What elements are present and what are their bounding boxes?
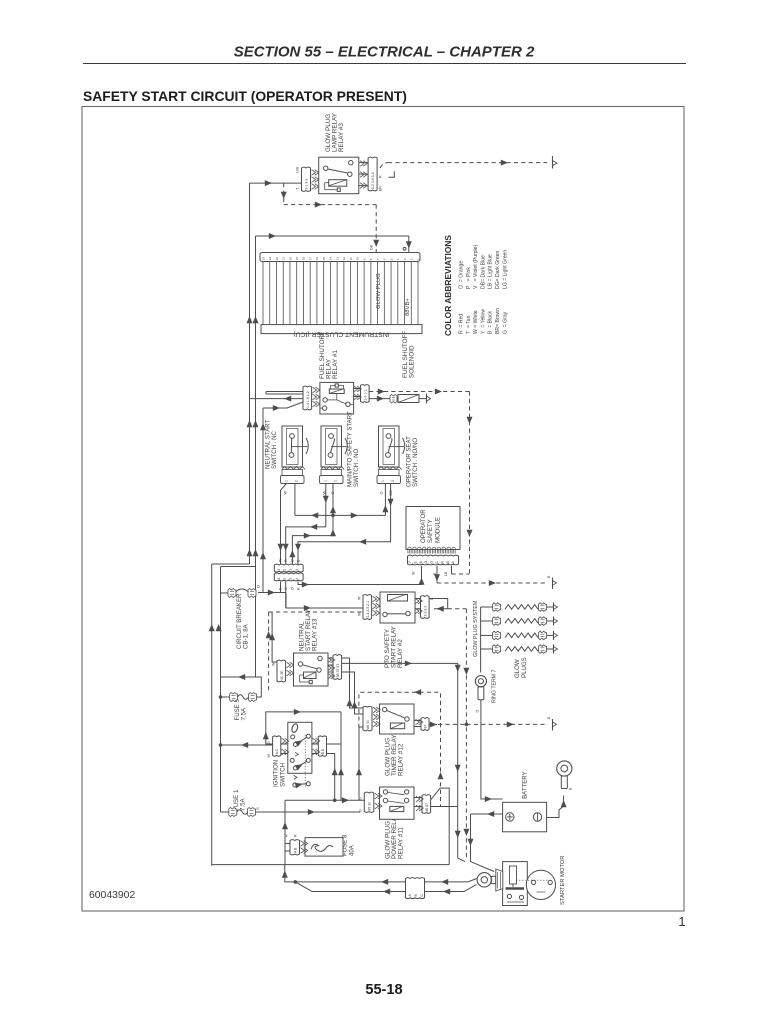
connector: ignition left plug <box>267 736 289 758</box>
svg-text:R: R <box>294 834 298 837</box>
wire: small dashed bracket below lamp relay output <box>389 171 395 177</box>
connector: module pin strip <box>408 547 459 576</box>
wire: dashed from fuel relay to right bus <box>369 389 469 395</box>
svg-text:RELAY #13: RELAY #13 <box>312 618 319 651</box>
svg-text:A C: A C <box>275 748 279 754</box>
svg-text:13: 13 <box>335 257 339 261</box>
svg-text:17: 17 <box>308 257 312 261</box>
svg-text:3: 3 <box>289 569 293 571</box>
wire: verticals from neutral relay down to timer relay <box>342 658 363 714</box>
connector: PTO relay left plug 2-4 2-5 2-1 <box>358 595 380 620</box>
wire: PTO relay right loopback <box>429 599 448 612</box>
wire: module feed bus3 <box>289 517 336 564</box>
relay: GLOW PLUG LAMP RELAY #3 <box>319 112 359 193</box>
connector: fuel relay left plug 1-4 1-6 1-2 <box>303 386 320 410</box>
wire: power relay output to starter <box>431 806 458 808</box>
svg-text:RING TERM 7: RING TERM 7 <box>492 670 498 703</box>
svg-text:1: 1 <box>678 914 685 929</box>
svg-text:W: W <box>267 754 271 758</box>
wire: dashed bus fuel relay to module <box>467 392 473 575</box>
fuse: FUSE 5 7.5A <box>219 674 262 721</box>
svg-text:MODULE: MODULE <box>434 517 441 543</box>
wire: module pin B to dashed ground <box>434 566 440 583</box>
svg-text:W: W <box>358 612 362 616</box>
svg-text:20: 20 <box>288 257 292 261</box>
wire: left vertical bus 2 <box>216 236 259 812</box>
connector: fuel relay right plug 1-3 1-1 <box>353 385 369 403</box>
connector: PTO relay right plug 2-3 2-2 <box>415 596 434 619</box>
starter: solenoid and motor <box>503 855 566 905</box>
component: INSTRUMENT CLUSTER (ICU) body <box>261 325 422 338</box>
wire: fuel relay to solenoid <box>369 396 390 402</box>
svg-text:14: 14 <box>329 257 333 261</box>
svg-text:G: G <box>359 809 363 812</box>
svg-text:O: O <box>476 710 480 713</box>
svg-text:L08: L08 <box>296 167 300 173</box>
svg-text:COLOR ABBREVIATIONS: COLOR ABBREVIATIONS <box>443 235 453 336</box>
wire: battery positive to starter <box>468 811 503 872</box>
svg-text:1: 1 <box>285 480 289 482</box>
svg-text:3C 3E: 3C 3E <box>280 670 284 680</box>
svg-text:Y = Yellow: Y = Yellow <box>480 309 486 334</box>
breaker: CIRCUIT BREAKER CB-1, 8A <box>221 585 261 649</box>
svg-text:SWITCH . NC: SWITCH . NC <box>271 430 278 469</box>
svg-text:3B 3T 6T: 3B 3T 6T <box>336 664 340 678</box>
svg-text:3-2 3-6 3-4: 3-2 3-6 3-4 <box>371 172 375 189</box>
svg-text:B = Black: B = Black <box>488 310 494 334</box>
svg-text:86 87: 86 87 <box>425 803 429 812</box>
wire: neutral relay to starter line <box>342 660 465 861</box>
connector: bottom 3-way inline <box>406 878 425 899</box>
svg-text:SWITCH: SWITCH <box>279 763 286 787</box>
dashed boundary: glow plug relay group <box>359 689 444 806</box>
svg-text:SWITCH . NO: SWITCH . NO <box>353 448 360 487</box>
svg-text:4: 4 <box>295 569 299 571</box>
wire: main power bus to power relay <box>282 797 364 864</box>
svg-text:15: 15 <box>322 257 326 261</box>
svg-text:22: 22 <box>275 257 279 261</box>
svg-text:16: 16 <box>315 257 319 261</box>
svg-text:GLOW PLUG: GLOW PLUG <box>376 273 382 309</box>
svg-text:88VB+: 88VB+ <box>405 298 411 316</box>
module: OPERATOR SAFETY MODULE <box>406 507 460 550</box>
wire: dashed parallel to PTO relay <box>266 612 363 693</box>
svg-text:R: R <box>285 834 289 837</box>
wire: seat/neutral switch interconnect bus <box>278 484 389 565</box>
svg-text:4: 4 <box>295 578 299 580</box>
svg-text:SAFETY START CIRCUIT (OPERATOR: SAFETY START CIRCUIT (OPERATOR PRESENT) <box>83 88 407 104</box>
svg-text:60043902: 60043902 <box>89 890 135 901</box>
svg-text:2: 2 <box>295 480 299 482</box>
svg-text:2: 2 <box>283 569 287 571</box>
switch: NEUTRAL START SWITCH NC <box>265 419 309 494</box>
svg-text:11: 11 <box>349 257 353 260</box>
wire: feed to lamp relay <box>250 180 302 186</box>
wires into fuel relay left <box>250 392 304 412</box>
wire: ignition right outputs <box>327 744 342 800</box>
svg-text:BR: BR <box>379 186 383 191</box>
svg-text:W: W <box>412 571 416 575</box>
svg-text:SWITCH . NO/NO: SWITCH . NO/NO <box>412 438 419 487</box>
svg-text:OPERATOR: OPERATOR <box>420 509 427 543</box>
connector: power relay right plug <box>414 795 431 814</box>
svg-text:87: 87 <box>424 725 428 729</box>
relay: NEUTRAL START RELAY #13 <box>294 608 329 686</box>
wire: connector to module (W) <box>298 566 425 588</box>
wire: bus2 feed to cluster pin 2 <box>256 233 412 253</box>
svg-text:RELAY #12: RELAY #12 <box>398 743 405 776</box>
svg-text:LB: LB <box>444 571 448 576</box>
connector: power relay left plug <box>359 792 383 812</box>
svg-text:2: 2 <box>283 578 287 580</box>
svg-text:W: W <box>272 662 276 666</box>
connector: ignition right plug <box>312 736 327 756</box>
svg-text:A6 30: A6 30 <box>366 720 370 729</box>
battery: BATTERY <box>503 771 547 831</box>
wire: bottom frame return bus <box>212 864 450 866</box>
wire: module pin A to dashed bus <box>452 566 470 574</box>
terminal: starter ring lug <box>477 869 503 891</box>
svg-text:7.5A: 7.5A <box>241 707 248 720</box>
svg-text:O: O <box>380 492 384 495</box>
relay: PTO SAFETY START RELAY #2 <box>380 592 415 668</box>
svg-text:O = Orange: O = Orange <box>459 261 465 289</box>
svg-text:W: W <box>284 491 288 495</box>
svg-text:1: 1 <box>324 480 328 482</box>
svg-text:18: 18 <box>302 257 306 261</box>
wire: timer relay right to dashed bus <box>429 722 466 728</box>
wire: dashed ground branch from module <box>437 575 557 589</box>
svg-text:W: W <box>358 596 362 600</box>
svg-text:55-18: 55-18 <box>365 982 402 998</box>
svg-text:1: 1 <box>277 578 281 580</box>
svg-text:DB= Dark Blue: DB= Dark Blue <box>480 255 486 289</box>
svg-text:40A: 40A <box>348 844 355 856</box>
svg-text:23: 23 <box>268 257 272 261</box>
wire: connector pin2 down to CB line <box>281 582 286 609</box>
instrument cluster pin wires <box>263 262 418 325</box>
svg-text:W = White: W = White <box>473 310 479 334</box>
svg-text:21: 21 <box>282 257 286 261</box>
component: FUEL SHUTOFF SOLENOID <box>390 331 431 404</box>
connector: lamp relay right plug 3-2 3-6 3-4 <box>359 157 383 191</box>
svg-text:W: W <box>279 558 283 562</box>
svg-text:PLUGS: PLUGS <box>521 657 528 678</box>
svg-text:12: 12 <box>342 257 346 261</box>
wire: battery negative to ring terminal <box>547 796 567 818</box>
svg-text:RELAY #3: RELAY #3 <box>338 123 345 152</box>
legend: COLOR ABBREVIATIONS <box>443 235 508 336</box>
terminal: battery ground ring <box>557 761 573 790</box>
wire: seat switch return bus4 <box>295 484 394 565</box>
fuse: FUSE 1 7.5A <box>221 789 361 816</box>
svg-text:BR= Brown: BR= Brown <box>495 308 501 334</box>
wire: dashed ground branch with terminator <box>465 716 557 731</box>
svg-text:2-3 2-2: 2-3 2-2 <box>423 606 427 617</box>
switch: MAIN/PTO SAFETY START SWITCH NO <box>320 411 361 495</box>
svg-text:19: 19 <box>295 257 299 261</box>
svg-text:G = Gray: G = Gray <box>502 311 508 334</box>
svg-text:R: R <box>379 175 383 178</box>
wire: dashed lamp relay output to right terminator <box>380 156 557 169</box>
relay: GLOW PLUG POWER RELAY #11 <box>380 787 415 859</box>
connector: 4-way double row <box>274 558 303 590</box>
connector: lamp relay left plug 3-1 3-3 <box>296 167 319 191</box>
svg-text:DG= Dark Green: DG= Dark Green <box>495 250 501 289</box>
svg-text:2: 2 <box>391 480 395 482</box>
switch: IGNITION SWITCH <box>273 722 312 788</box>
wire: ring term 7 down to battery <box>481 700 503 802</box>
svg-text:A B: A B <box>293 847 297 853</box>
svg-text:O: O <box>424 561 428 564</box>
svg-text:LG = Light Green: LG = Light Green <box>502 250 508 289</box>
svg-text:3: 3 <box>289 578 293 580</box>
svg-text:G: G <box>256 807 260 810</box>
connector: timer relay left plug <box>363 706 380 731</box>
svg-text:V = Violet (Purple): V = Violet (Purple) <box>473 244 479 289</box>
svg-text:RELAY #11: RELAY #11 <box>398 827 405 859</box>
wire: solid feed beside dashed into neutral relay <box>269 612 277 662</box>
wire: dashed branch from feed down and to cluster <box>281 183 380 252</box>
wire: dashed stub to lower dashed bus <box>448 609 470 858</box>
svg-text:BATTERY: BATTERY <box>522 771 529 799</box>
svg-text:7.5A: 7.5A <box>240 798 247 811</box>
svg-text:SOLENOID: SOLENOID <box>409 345 416 378</box>
connector: timer relay right plug <box>414 718 429 731</box>
svg-text:R = Red: R = Red <box>459 314 465 334</box>
svg-text:O: O <box>291 559 295 562</box>
svg-text:R: R <box>284 559 288 562</box>
svg-text:GLOW PLUG SYSTEM: GLOW PLUG SYSTEM <box>473 600 479 657</box>
svg-text:T = Tan: T = Tan <box>466 315 472 334</box>
relay: GLOW PLUG TIMER RELAY #12 <box>380 704 415 776</box>
svg-text:SAFETY: SAFETY <box>427 519 434 543</box>
relay: FUEL SHUTOFF RELAY #1 <box>319 332 354 414</box>
wire: PTO switch wires <box>283 484 336 565</box>
svg-text:P = Pink: P = Pink <box>466 267 472 289</box>
connector: neutral relay left plug <box>272 660 294 682</box>
connector: instrument cluster pin header <box>260 253 420 262</box>
svg-text:G: G <box>359 797 363 800</box>
connector: neutral relay right plug <box>328 655 342 680</box>
page header: SECTION 55 - ELECTRICAL - CHAPTER 2 <box>83 44 686 64</box>
svg-text:O: O <box>257 585 261 588</box>
svg-text:DB: DB <box>370 244 374 250</box>
wire: glow plug feed vertical <box>480 607 482 673</box>
svg-text:24: 24 <box>261 257 265 261</box>
wire: bottom bus C <box>295 882 476 895</box>
svg-text:LB = Light Blue: LB = Light Blue <box>488 254 494 289</box>
svg-text:2-4 2-5 2-1: 2-4 2-5 2-1 <box>366 601 370 618</box>
wire: power relay return loop via frame <box>431 788 450 865</box>
wire: ignition dot feed <box>219 742 273 748</box>
wire: bottom bus B <box>282 865 477 885</box>
svg-text:1-3 1-1: 1-3 1-1 <box>363 390 367 401</box>
wire: timer relay bottom pin down to power bus <box>356 727 363 800</box>
wire: ignition feed loop <box>263 709 344 800</box>
fuse: FUSE 8 40A <box>285 834 356 856</box>
svg-text:1-4 1-6 1-2: 1-4 1-6 1-2 <box>306 391 310 408</box>
svg-text:85 30: 85 30 <box>368 802 372 811</box>
svg-text:CB-1, 8A: CB-1, 8A <box>243 623 250 649</box>
svg-text:INSTRUMENT CLUSTER (ICU): INSTRUMENT CLUSTER (ICU) <box>293 331 389 338</box>
svg-text:R: R <box>297 587 301 590</box>
svg-text:2: 2 <box>334 480 338 482</box>
switch: OPERATOR SEAT SWITCH NO/NO <box>377 426 419 496</box>
svg-text:O: O <box>291 587 295 590</box>
glow plugs: 4 resistive elements <box>481 603 558 654</box>
svg-text:STARTER MOTOR: STARTER MOTOR <box>560 855 566 905</box>
wire: left vertical bus 3 <box>260 408 266 593</box>
svg-text:G: G <box>430 561 434 564</box>
terminal: RING TERM 7 <box>475 670 497 713</box>
svg-text:RELAY #1: RELAY #1 <box>332 350 339 379</box>
svg-text:B D: B D <box>321 748 325 754</box>
svg-text:10: 10 <box>356 257 360 261</box>
wire: CB output to PTO relay <box>258 590 363 612</box>
drawing frame <box>82 107 684 912</box>
svg-text:1: 1 <box>381 480 385 482</box>
svg-text:1: 1 <box>277 569 281 571</box>
svg-text:3-1 3-3: 3-1 3-3 <box>305 179 309 190</box>
svg-text:SECTION 55 – ELECTRICAL – CHAP: SECTION 55 – ELECTRICAL – CHAPTER 2 <box>234 44 535 61</box>
wire: left vertical bus 1 <box>209 183 253 866</box>
